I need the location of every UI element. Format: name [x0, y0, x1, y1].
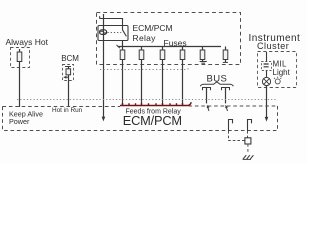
fuse F1	[122, 47, 124, 51]
wire: bus line 1 into ECM	[206, 88, 208, 104]
svg-text:Cluster: Cluster	[257, 41, 289, 51]
BCM fuse body	[66, 69, 71, 75]
instrument cluster dashed box	[258, 52, 297, 88]
bus connector 2	[222, 88, 230, 91]
fuse F6	[225, 47, 227, 51]
wire: B+ branch to relay switch contact	[100, 16, 123, 30]
svg-text:BCM: BCM	[61, 54, 79, 63]
chassis ground symbol	[243, 155, 253, 159]
BCM output terminal bar	[65, 66, 71, 68]
svg-text:BUS: BUS	[207, 74, 228, 85]
harness dotted run under relay box	[100, 66, 190, 69]
wire: F1 to ECM feeds-from-relay pin	[122, 60, 124, 106]
bus brace	[200, 82, 233, 86]
wire: F3 to ECM feeds-from-relay pin	[162, 60, 164, 106]
wire: F5 stub to terminal	[202, 60, 204, 62]
wire: F6 stub	[225, 60, 227, 63]
dashed drop to chassis ground	[247, 144, 249, 153]
wire: MIL lamp to ECM	[266, 86, 268, 119]
arrowhead into ECM (relay control)	[102, 117, 106, 122]
fuse bus fed from relay	[118, 46, 221, 48]
bus connector 1	[203, 88, 211, 91]
fuse box (Always Hot) dashed outline	[11, 48, 30, 68]
svg-text:Hot in Run: Hot in Run	[52, 107, 83, 114]
fuse F5	[202, 47, 204, 51]
relay switch blade	[123, 30, 127, 37]
wire: F4 to ECM feeds-from-relay pin	[182, 60, 184, 106]
BCM arrow (output direction)	[65, 76, 69, 78]
ECM ground pin 2	[248, 120, 252, 132]
ECM/PCM dashed module box	[3, 105, 278, 131]
ECM connector dotted line	[17, 99, 276, 101]
wire: B+ feed down through relay coil continuing to ECM control pin	[103, 14, 105, 118]
dashed ground run pin2 to splice	[247, 131, 249, 138]
svg-text:Fuses: Fuses	[164, 38, 187, 48]
connector terminals	[264, 64, 269, 67]
bus arrow 2 inside ECM	[226, 107, 227, 111]
underhood fuse/relay dashed enclosure box	[97, 13, 241, 65]
wire: cluster top to lamp	[266, 52, 268, 77]
bus arrow 1 inside ECM	[208, 107, 209, 111]
bus left end tick	[116, 45, 120, 48]
cluster feed connector dashed boxlet	[262, 62, 272, 71]
relay coil-to-contact dotted link	[108, 32, 122, 34]
svg-text:ECM/PCM: ECM/PCM	[123, 113, 182, 128]
BCM dashed outline	[63, 65, 74, 81]
svg-text:Always Hot: Always Hot	[6, 37, 49, 47]
svg-text:Light: Light	[273, 68, 291, 77]
ground splice block	[245, 138, 251, 144]
F5 terminal bars	[200, 61, 207, 63]
fuse F4	[182, 47, 184, 51]
svg-text:Power: Power	[9, 117, 30, 126]
arrowhead MIL wire into ECM	[265, 117, 269, 122]
lamp glow doodle	[275, 79, 280, 84]
ECM ground pin 1	[229, 120, 233, 132]
relay U1 body	[98, 26, 128, 41]
wire: BCM hot-in-run output down to ECM	[68, 67, 70, 107]
svg-text:ECM/PCM: ECM/PCM	[133, 23, 173, 33]
svg-text:Relay: Relay	[133, 33, 157, 43]
wire: always-hot feed through fuse down to ECM keep-alive pin	[19, 49, 21, 107]
wire: bus line 2 into ECM	[225, 88, 227, 104]
fuse F3	[162, 47, 164, 51]
MIL lamp (circle with X)	[262, 77, 270, 85]
wire: F2 to ECM feeds-from-relay pin	[141, 60, 143, 106]
feeds-from-relay red pin bar	[120, 102, 191, 105]
fuse F-AH body	[17, 52, 22, 62]
fuse F2	[141, 47, 143, 51]
wire: relay switch output to fuse bus	[122, 41, 124, 47]
F6 foot tick	[223, 61, 228, 63]
dashed ground run pin1 to splice	[229, 131, 245, 141]
relay coil	[100, 30, 107, 35]
